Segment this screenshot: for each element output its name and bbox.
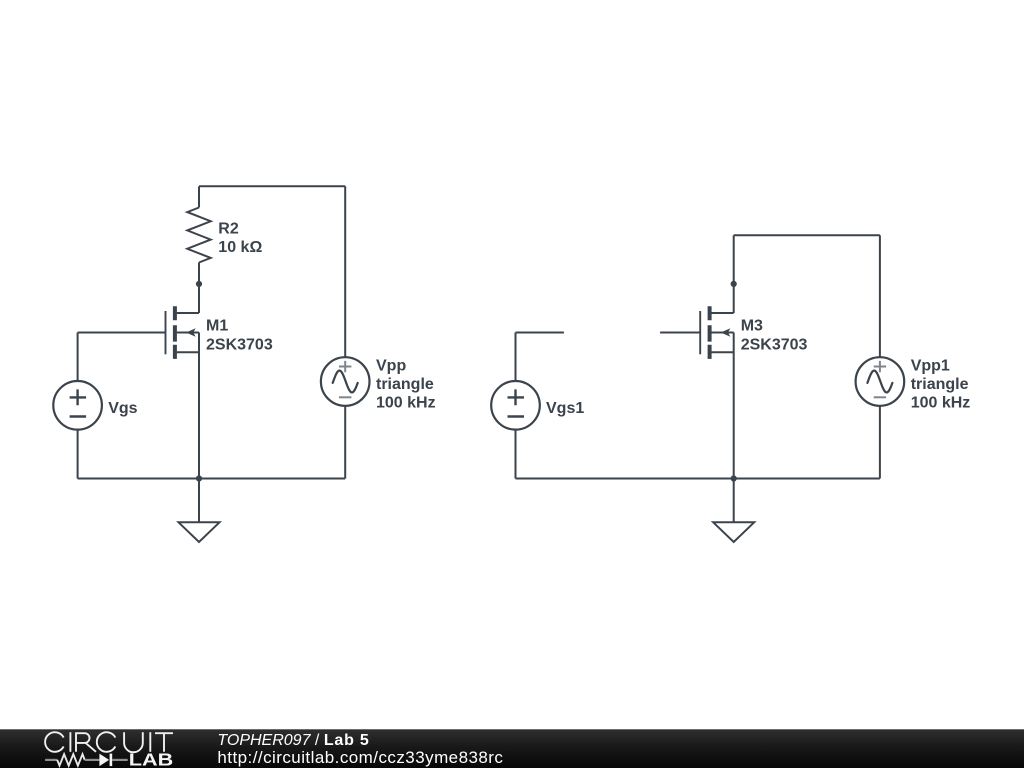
wire: Vgs bottom lead bbox=[77, 430, 79, 479]
wire: Vgs1 bottom lead bbox=[515, 430, 517, 479]
wire: Vpp top lead bbox=[344, 186, 346, 357]
wire: bottom rail right circuit bbox=[516, 478, 880, 480]
wire: M3 gate stub (unconnected) bbox=[660, 332, 700, 334]
svg-text:Vgs1: Vgs1 bbox=[546, 400, 584, 417]
svg-text:Vgs: Vgs bbox=[108, 400, 137, 417]
voltage source Vpp1 (sine symbol) bbox=[856, 357, 905, 406]
svg-text:100 kHz: 100 kHz bbox=[376, 395, 436, 412]
wire: source of M1 down to bottom rail bbox=[198, 333, 200, 479]
svg-text:M1: M1 bbox=[206, 317, 228, 334]
svg-text:LAB: LAB bbox=[129, 749, 173, 768]
wire: bottom rail left circuit bbox=[78, 478, 346, 480]
wire: Vpp bottom lead bbox=[344, 406, 346, 479]
wire: top rail down to drain node bbox=[733, 235, 735, 284]
svg-text:http://circuitlab.com/ccz33yme: http://circuitlab.com/ccz33yme838rc bbox=[217, 748, 503, 767]
node: drain junction left bbox=[196, 281, 202, 287]
svg-text:triangle: triangle bbox=[911, 376, 969, 393]
svg-text:2SK3703: 2SK3703 bbox=[741, 336, 808, 353]
transistor M3 (NMOS) bbox=[700, 306, 734, 359]
node: drain junction right bbox=[731, 281, 737, 287]
svg-text:2SK3703: 2SK3703 bbox=[206, 336, 273, 353]
CircuitLab logo: CIRCUIT wordmark bbox=[45, 732, 173, 752]
svg-text:100 kHz: 100 kHz bbox=[911, 395, 971, 412]
wire: Vpp1 top lead bbox=[879, 235, 881, 357]
wire: top rail left circuit bbox=[199, 185, 345, 187]
wire: resistor bottom lead to drain node bbox=[198, 263, 200, 284]
wire: gate wire Vgs to M1 bbox=[78, 332, 166, 334]
wire: top rail right circuit bbox=[734, 234, 880, 236]
svg-text:M3: M3 bbox=[741, 317, 763, 334]
svg-text:Vpp: Vpp bbox=[376, 357, 406, 374]
wire: resistor top lead bbox=[198, 186, 200, 207]
wire: node to drain bbox=[198, 284, 200, 313]
voltage source Vgs1 bbox=[491, 381, 540, 430]
resistor R2 bbox=[187, 208, 210, 263]
transistor M1 (NMOS) bbox=[166, 306, 200, 359]
node: bottom junction right bbox=[731, 475, 737, 481]
svg-text:R2: R2 bbox=[218, 220, 239, 237]
wire: Vgs top lead bbox=[77, 333, 79, 382]
wire: node to M3 drain bbox=[733, 284, 735, 313]
wire: Vpp1 bottom lead bbox=[879, 406, 881, 479]
svg-text:Vpp1: Vpp1 bbox=[911, 357, 950, 374]
node: bottom junction left bbox=[196, 475, 202, 481]
svg-text:TOPHER097 / Lab 5: TOPHER097 / Lab 5 bbox=[217, 732, 369, 749]
voltage source Vpp (sine symbol) bbox=[321, 357, 370, 406]
CircuitLab logo: resistor-diode strip bbox=[45, 754, 128, 767]
voltage source Vgs bbox=[53, 381, 102, 430]
svg-text:10 kΩ: 10 kΩ bbox=[218, 239, 262, 256]
wire: Vgs1 stub (unconnected) bbox=[516, 333, 564, 382]
svg-text:triangle: triangle bbox=[376, 376, 434, 393]
ground right bbox=[713, 479, 754, 543]
wire: M3 source down to bottom rail bbox=[733, 333, 735, 479]
ground left bbox=[179, 479, 220, 543]
